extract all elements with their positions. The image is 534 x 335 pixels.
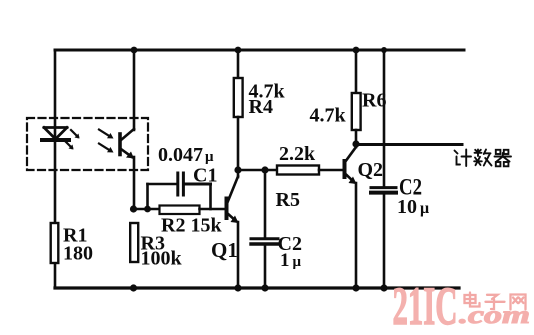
capacitor C2 1u bbox=[251, 239, 278, 244]
svg-text:4.7k: 4.7k bbox=[310, 105, 347, 127]
node ground junction R3 bbox=[130, 284, 137, 291]
node top rail junction at R6 bbox=[353, 47, 360, 54]
wire Q2 collector vertical bbox=[355, 144, 358, 148]
node top rail junction at phototransistor collector bbox=[131, 47, 138, 54]
svg-text:10μ: 10μ bbox=[397, 196, 429, 218]
wire Q1 emitter down to ground rail bbox=[237, 222, 240, 288]
node ground junction C2 10u bbox=[380, 284, 387, 291]
node Q1 collector junction bbox=[234, 166, 241, 173]
node output junction bbox=[352, 140, 359, 147]
phototransistor of optocoupler bbox=[99, 129, 134, 159]
wire C1 branch left vertical bbox=[146, 184, 149, 209]
wire C2 bypass branch vertical top bbox=[383, 50, 386, 186]
node junction C1 branch bbox=[144, 206, 151, 213]
resistor R6 4.7k bbox=[352, 50, 361, 144]
resistor R3 100k bbox=[130, 223, 138, 262]
wire phototransistor collector to top rail bbox=[133, 50, 136, 130]
svg-text:R2 15k: R2 15k bbox=[161, 215, 222, 237]
node junction R3 / R2 branch bbox=[130, 205, 137, 212]
wire C1 branch right vertical bbox=[209, 184, 212, 209]
capacitor C2 10u bbox=[371, 188, 396, 193]
node ground junction C2 1u bbox=[261, 284, 268, 291]
capacitor C1 0.047u bbox=[178, 173, 184, 195]
wire top supply rail bbox=[55, 49, 464, 52]
resistor R1 180 bbox=[51, 223, 59, 263]
node C2 1u junction bbox=[261, 166, 268, 173]
wire C2 bypass branch vertical bottom bbox=[383, 195, 386, 289]
label counter (ji shu qi) bbox=[455, 150, 512, 167]
transistor Q1 bbox=[227, 177, 239, 224]
wire R2 to Q1 base bbox=[200, 208, 226, 211]
wire Q2 emitter down to ground rail bbox=[355, 183, 358, 288]
resistor R5 2.2k bbox=[277, 166, 319, 175]
transistor Q2 bbox=[345, 147, 357, 184]
wire Q1 collector vertical bbox=[237, 170, 240, 177]
wire bottom ground rail bbox=[55, 286, 459, 289]
wire R5 to Q2 base bbox=[319, 169, 343, 172]
svg-text:100k: 100k bbox=[141, 248, 183, 270]
logo dian zi wang bbox=[465, 293, 526, 310]
svg-text:2.2k: 2.2k bbox=[279, 143, 316, 165]
svg-text:R6: R6 bbox=[362, 90, 386, 112]
wire junction to RC network bbox=[134, 208, 160, 211]
node ground junction Q1 emitter bbox=[234, 284, 241, 291]
wire output line to counter bbox=[356, 143, 462, 146]
svg-text:R4: R4 bbox=[249, 96, 273, 118]
wire C2 1u branch vertical top bbox=[264, 170, 267, 237]
svg-text:0.047μ: 0.047μ bbox=[158, 144, 214, 166]
svg-text:C1: C1 bbox=[193, 165, 217, 187]
node top rail junction at C2 bypass bbox=[381, 47, 387, 53]
wire C2 1u branch vertical bottom bbox=[264, 245, 267, 288]
wire C1 branch right horizontal bbox=[185, 183, 211, 186]
resistor R2 15k bbox=[160, 206, 200, 215]
wire C1 branch left horizontal bbox=[148, 183, 177, 186]
svg-text:Q1: Q1 bbox=[211, 238, 238, 262]
wire collector node to C2 node bbox=[238, 169, 277, 172]
optocoupler dashed box bbox=[27, 118, 148, 170]
svg-text:Q2: Q2 bbox=[358, 159, 384, 181]
svg-text:21IC: 21IC bbox=[393, 276, 458, 335]
resistor R4 4.7k bbox=[234, 50, 243, 170]
svg-text:180: 180 bbox=[63, 243, 93, 265]
wire phototransistor emitter down to base node bbox=[133, 157, 136, 209]
svg-text:R5: R5 bbox=[276, 189, 300, 211]
wire left vertical branch bbox=[54, 50, 57, 288]
node top rail junction at R4 bbox=[235, 47, 242, 54]
node ground junction Q2 emitter bbox=[352, 284, 359, 291]
LED lamp in optocoupler bbox=[42, 128, 80, 150]
